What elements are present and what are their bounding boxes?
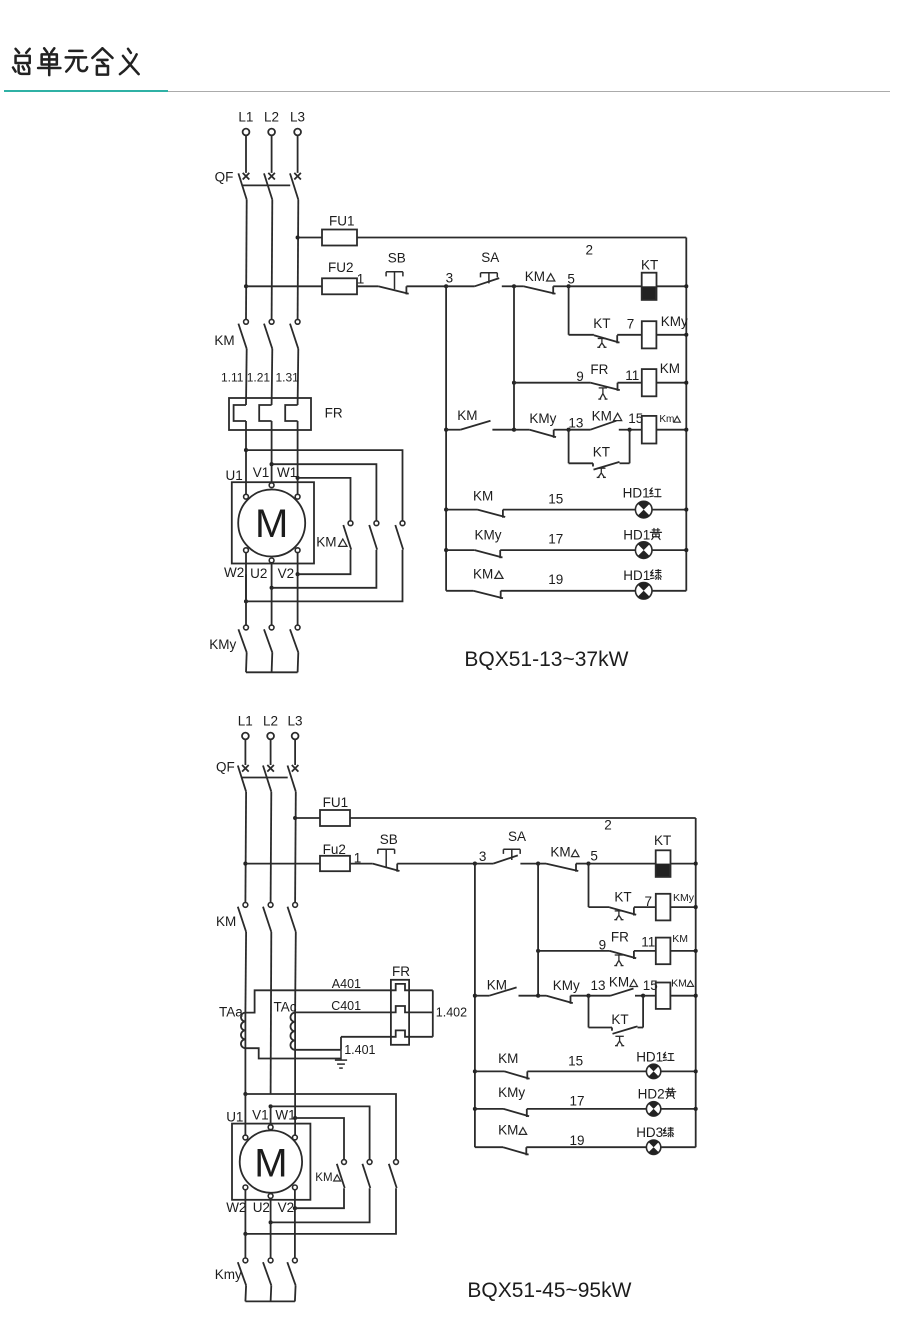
top node FU2 tap on pole1 xyxy=(244,284,248,288)
bottom wire delta branch2 xyxy=(271,1106,370,1159)
bottom contactor Kmy pole1 xyxy=(243,1258,248,1263)
svg-text:1.21: 1.21 xyxy=(247,371,271,385)
svg-text:V1: V1 xyxy=(253,465,270,480)
bottom node railB r4 xyxy=(536,994,540,998)
top contactor KMy pole2 xyxy=(269,625,274,630)
top node railA r6 xyxy=(444,548,448,552)
top KT bypass delay mark xyxy=(597,468,606,477)
bottom contactor KM pole2 xyxy=(268,903,273,908)
top wire railA to KMy contact r6 xyxy=(446,549,475,551)
svg-text:13: 13 xyxy=(568,415,583,430)
top node delta tap pole2 xyxy=(270,462,274,466)
top contactor KM-delta pole1 xyxy=(348,521,353,526)
bottom wire pole1 KM down xyxy=(244,932,247,1013)
top wire pole2 KM-FR xyxy=(271,349,274,405)
bottom wire pole1 QF-KM xyxy=(244,792,247,903)
bottom wire FR right tie 2 xyxy=(409,1011,433,1013)
top contactor KM-delta pole2 xyxy=(374,521,379,526)
bottom coil KM xyxy=(656,938,671,965)
bottom wire TAa return xyxy=(245,1048,341,1058)
svg-text:A401: A401 xyxy=(332,977,361,991)
top node 13 junction xyxy=(567,428,571,432)
top motor M circle xyxy=(238,490,305,557)
top wire W2 down to KMy xyxy=(245,574,247,625)
svg-text:KM: KM xyxy=(473,566,493,581)
svg-text:M: M xyxy=(254,1141,287,1185)
svg-text:KT: KT xyxy=(641,257,658,272)
top contact KT NO delayed (bypass) xyxy=(594,462,620,470)
title underline teal segment xyxy=(4,90,168,92)
svg-text:KM: KM xyxy=(671,977,687,989)
bottom wire U2 down to Kmy xyxy=(270,1222,272,1258)
bottom indicator lamp HD1 red xyxy=(646,1064,660,1078)
top FR heater element pole1 xyxy=(234,405,246,421)
bottom wire lamp to rail r7 xyxy=(661,1146,696,1148)
bottom indicator lamp HD2 yellow xyxy=(646,1102,660,1116)
bottom node delta tap pole3 xyxy=(293,1116,297,1120)
top wire pole1 KM-FR xyxy=(245,349,248,405)
bottom wire FU1 to right rail xyxy=(350,817,696,819)
bottom wire W2 to delta pole3 xyxy=(244,1190,246,1234)
top wire FU2 to SB xyxy=(357,285,378,287)
svg-text:11: 11 xyxy=(641,935,655,950)
svg-text:KM: KM xyxy=(214,333,234,348)
top node railB top xyxy=(512,284,516,288)
bottom node delta tap pole2 xyxy=(269,1104,273,1108)
bottom wire railC xyxy=(588,864,590,908)
bottom wire bypass down from node13 xyxy=(588,996,590,1028)
bottom contact KMy NC interlock xyxy=(547,996,573,1004)
top motor terminal V2 xyxy=(295,548,300,553)
bottom wire pole1 down to U1 xyxy=(244,1094,246,1135)
bottom fuse Fu2 xyxy=(320,856,350,871)
bottom wire delta branch3 xyxy=(295,1118,344,1160)
bottom node rail r5 xyxy=(694,1069,698,1073)
bottom wire node13 to KMdelta contact xyxy=(589,995,611,997)
bottom node rail r2 xyxy=(694,905,698,909)
bottom wire node15 to coil xyxy=(643,995,656,997)
top contact KMy NC interlock xyxy=(530,430,556,438)
bottom wire node5 to KT coil xyxy=(589,863,656,865)
bottom contactor KM-delta pole1 xyxy=(342,1160,347,1165)
top wire railC corner to KT contact xyxy=(569,334,594,336)
svg-text:KM: KM xyxy=(498,1051,518,1066)
top contactor KM-delta pole3 xyxy=(400,521,405,526)
bottom wire Fu2 to SB xyxy=(350,863,373,865)
svg-text:U1: U1 xyxy=(226,1110,243,1125)
svg-text:Kmy: Kmy xyxy=(215,1267,242,1282)
bottom KT bypass delay mark xyxy=(615,1036,624,1045)
svg-text:7: 7 xyxy=(645,894,653,909)
bottom motor terminal V1 xyxy=(268,1125,273,1130)
top breaker QF pole3 xyxy=(294,173,301,180)
bottom node railA r5 xyxy=(473,1069,477,1073)
svg-text:KT: KT xyxy=(593,444,610,459)
bottom contact KM NO aux xyxy=(489,987,516,995)
bottom wire SB to node3 xyxy=(397,863,475,865)
top node rail r1 xyxy=(684,284,688,288)
bottom wire pole3 down to W1 xyxy=(294,1118,296,1135)
bottom wire A401 line xyxy=(245,990,391,1012)
svg-text:KM: KM xyxy=(672,933,688,945)
svg-text:13: 13 xyxy=(591,978,606,993)
top wire pole3 to FU1 xyxy=(298,237,322,239)
svg-text:19: 19 xyxy=(548,572,563,587)
top motor terminal W2 xyxy=(244,548,249,553)
bottom contact KM (red lamp) xyxy=(505,1071,530,1079)
top wire to node5 xyxy=(553,285,568,287)
top coil KM xyxy=(642,369,657,396)
svg-text:HD2: HD2 xyxy=(638,1086,665,1101)
top wire railA to KM contact xyxy=(446,429,460,431)
svg-text:BQX51-13~37kW: BQX51-13~37kW xyxy=(464,648,628,671)
bottom wire KM coil to rail xyxy=(670,950,695,952)
top node rail r3 xyxy=(684,381,688,385)
bottom pushbutton SB (NC stop) xyxy=(373,864,400,872)
svg-text:KM: KM xyxy=(487,977,507,992)
bottom node 5 junction xyxy=(586,862,590,866)
bottom node railA r4 xyxy=(473,994,477,998)
top node delta tap pole1 xyxy=(244,448,248,452)
bottom thermal relay FR box xyxy=(391,980,409,1045)
bottom wire bypass bottom left xyxy=(589,1027,613,1029)
top contactor KM pole3 xyxy=(295,319,300,324)
title underline gray segment xyxy=(168,91,890,93)
top wire bypass down from node13 xyxy=(568,430,570,464)
svg-text:SA: SA xyxy=(481,250,499,265)
top wire L2 to QF xyxy=(271,135,273,173)
top contactor KM pole2 xyxy=(269,319,274,324)
bottom FR heater element 1 xyxy=(391,984,409,990)
svg-text:HD1: HD1 xyxy=(623,485,650,500)
svg-text:15: 15 xyxy=(548,491,563,506)
top contact KM (red lamp) xyxy=(478,510,506,518)
bottom KT delay mark xyxy=(614,911,623,920)
bottom motor M box xyxy=(232,1124,310,1200)
bottom wire pole1 to Fu2 xyxy=(245,863,320,865)
top thermal relay FR box xyxy=(229,398,311,430)
bottom pushbutton SA (NO start) xyxy=(493,855,518,863)
top wire KMy pole2 to star bar xyxy=(271,652,274,672)
bottom breaker QF pole3 xyxy=(292,765,299,772)
bottom node rail r3 xyxy=(694,949,698,953)
bottom FR heater element 2 xyxy=(391,1006,409,1012)
top contact KMy (yellow lamp) xyxy=(475,550,503,558)
top wire pole1 QF-KM xyxy=(245,200,248,320)
bottom wire railB r3 to FR xyxy=(538,950,610,952)
bottom wire railA to KM r5 xyxy=(475,1070,505,1072)
top node railB r4 xyxy=(512,428,516,432)
bottom node 13 junction xyxy=(586,994,590,998)
top indicator lamp HD1 red xyxy=(635,501,652,518)
top motor M box xyxy=(232,482,314,563)
top wire delta branch1 xyxy=(246,450,403,521)
bottom wire TAc vertical chord xyxy=(294,1013,296,1050)
top node 5 junction xyxy=(567,284,571,288)
top wire SB to node3 xyxy=(406,285,446,287)
svg-text:U2: U2 xyxy=(250,566,267,581)
bottom motor terminal V2 xyxy=(293,1185,298,1190)
bottom wire contact to lamp HD3 xyxy=(526,1146,646,1148)
svg-text:V2: V2 xyxy=(278,566,295,581)
bottom FR trip mark xyxy=(614,955,623,966)
svg-text:L3: L3 xyxy=(290,110,305,125)
top FR heater element pole3 xyxy=(285,405,297,421)
bottom node railB r3 xyxy=(536,949,540,953)
bottom wire C401 line xyxy=(295,1011,391,1013)
bottom wire TAa vertical chord xyxy=(244,1013,246,1049)
top wire right rail xyxy=(685,238,687,591)
top wire contact to lamp HD1g xyxy=(501,590,636,592)
svg-text:M: M xyxy=(255,502,288,546)
top wire FU1 to right rail xyxy=(357,237,686,239)
svg-text:5: 5 xyxy=(567,272,575,287)
top node delta tap pole3 xyxy=(296,476,300,480)
bottom node railB top xyxy=(536,862,540,866)
svg-text:KM: KM xyxy=(316,534,336,549)
bottom wire FR to KM coil xyxy=(634,950,655,952)
top node rail r6 xyxy=(684,548,688,552)
bottom node 3 junction xyxy=(473,862,477,866)
top node railA r5 xyxy=(444,508,448,512)
bottom wire coil to rail xyxy=(670,995,695,997)
top wire railB r3 to FR xyxy=(514,382,591,384)
top wire railC xyxy=(568,286,570,335)
svg-text:U2: U2 xyxy=(253,1200,270,1215)
bottom wire lamp to rail r5 xyxy=(661,1070,696,1072)
bottom node FU1 tap on pole3 xyxy=(293,816,297,820)
bottom wire KT coil to right rail xyxy=(671,863,696,865)
svg-text:9: 9 xyxy=(576,369,584,384)
bottom contact KMy (yellow lamp) xyxy=(504,1109,530,1117)
svg-text:L2: L2 xyxy=(264,110,279,125)
bottom contact KM-delta (green lamp) xyxy=(503,1147,529,1155)
svg-text:KM: KM xyxy=(525,269,545,284)
bottom node L3 terminal xyxy=(292,733,299,740)
top contact FR NC (overload) xyxy=(591,383,620,391)
svg-text:3: 3 xyxy=(479,849,487,864)
top wire node5 to KT coil xyxy=(569,285,642,287)
svg-text:FR: FR xyxy=(392,964,410,979)
top contact KM NO aux xyxy=(460,421,490,430)
top breaker QF pole1 xyxy=(243,173,250,180)
bottom wire 1.401 drop xyxy=(340,1037,342,1050)
top wire stub railB-KMy xyxy=(514,429,530,431)
svg-text:1: 1 xyxy=(357,272,365,287)
bottom indicator lamp HD3 green xyxy=(646,1140,660,1154)
top wire railA to KM contact r5 xyxy=(446,509,477,511)
top wire lamp to rail r7 xyxy=(652,590,686,592)
svg-text:FU1: FU1 xyxy=(329,214,355,229)
top contact KM-delta (green lamp) xyxy=(473,591,503,599)
bottom wire W2 down to Kmy xyxy=(244,1234,246,1258)
svg-text:KMy: KMy xyxy=(209,637,236,652)
bottom FR heater element 3 xyxy=(391,1030,409,1036)
svg-text:Km: Km xyxy=(659,414,674,425)
bottom wire to node5 xyxy=(576,863,589,865)
bottom star point bar xyxy=(245,1300,295,1302)
svg-text:KT: KT xyxy=(593,316,610,331)
top wire bypass up to node15 xyxy=(629,430,631,464)
bottom wire right rail xyxy=(695,818,697,1147)
svg-text:SB: SB xyxy=(380,832,398,847)
svg-text:2: 2 xyxy=(604,818,612,833)
svg-text:FU1: FU1 xyxy=(323,795,349,810)
svg-text:KMy: KMy xyxy=(498,1085,525,1100)
bottom wire pole3 to FU1 xyxy=(295,817,320,819)
top wire node3 to SA xyxy=(446,285,475,287)
top KT delay mark xyxy=(597,339,606,348)
top wire L3 to QF xyxy=(297,135,299,173)
top wire railA to KMdelta contact r7 xyxy=(446,590,473,592)
bottom fuse FU1 xyxy=(320,810,350,826)
bottom wire TAc return xyxy=(295,1049,341,1051)
top node FU1 tap on pole3 xyxy=(296,235,300,239)
svg-text:KT: KT xyxy=(614,890,631,905)
bottom contact KM-delta NC interlock xyxy=(546,864,578,872)
svg-text:KM: KM xyxy=(550,845,570,860)
bottom ground symbol xyxy=(335,1050,347,1068)
top FR trip mark xyxy=(598,388,607,399)
top wire KMy contact to node13 xyxy=(554,429,569,431)
bottom wire V2 down to Kmy xyxy=(294,1208,296,1258)
top wire U2 to delta pole2 xyxy=(271,563,273,588)
bottom wire KM contact to railB xyxy=(519,995,539,997)
bottom wire railC corner to KT contact xyxy=(589,906,610,908)
svg-text:KM: KM xyxy=(660,361,680,376)
bottom coil KMy xyxy=(656,894,671,921)
top wire bypass bottom right xyxy=(620,462,630,464)
bottom contact KT NC delayed xyxy=(610,907,637,915)
bottom wire pole2 down to V1 xyxy=(270,1106,272,1124)
top wire V2 down to KMy xyxy=(297,574,299,625)
bottom wire railA to KMy r6 xyxy=(475,1108,504,1110)
bottom wire L1 to QF xyxy=(244,739,246,765)
top wire contact to lamp HD1y xyxy=(500,549,635,551)
bottom wire railA to KMdelta r7 xyxy=(475,1146,503,1148)
bottom CT TAc winding xyxy=(290,1013,295,1050)
top wire delta branch2 xyxy=(272,464,377,521)
top contactor KMy pole1 xyxy=(244,625,249,630)
top wire L1 to QF xyxy=(245,135,247,173)
top node rail r5 xyxy=(684,508,688,512)
bottom wire bypass up to node15 xyxy=(642,996,644,1028)
svg-text:C401: C401 xyxy=(331,999,361,1013)
svg-text:11: 11 xyxy=(625,368,639,383)
bottom wire contact to lamp HD1 xyxy=(527,1070,646,1072)
top wire KMy pole3 to star bar xyxy=(297,652,300,672)
bottom motor terminal W1 xyxy=(293,1135,298,1140)
svg-text:1.401: 1.401 xyxy=(344,1043,375,1057)
top fuse FU1 xyxy=(322,230,357,246)
bottom breaker QF pole2 xyxy=(267,765,274,772)
top wire pole3 QF-KM xyxy=(297,200,300,320)
bottom node railA r6 xyxy=(473,1107,477,1111)
bottom motor terminal U2 xyxy=(268,1194,273,1199)
top motor terminal W1 xyxy=(295,494,300,499)
top FR heater element pole2 xyxy=(259,405,271,421)
top wire node15 to coil xyxy=(630,429,642,431)
top wire pole1 to FU2 xyxy=(246,285,322,287)
svg-text:KM: KM xyxy=(473,488,493,503)
top wire pole3 KM-FR xyxy=(297,349,300,405)
top motor terminal U2 xyxy=(269,558,274,563)
top wire railB xyxy=(513,286,515,429)
top wire delta branch3 xyxy=(298,478,351,521)
top breaker QF linkage bar xyxy=(242,184,290,186)
bottom wire heater3 to 1.401 xyxy=(341,1036,391,1038)
svg-text:KM: KM xyxy=(498,1122,518,1137)
bottom wire pole2 QF-KM xyxy=(270,792,273,903)
svg-text:KT: KT xyxy=(654,833,671,848)
bottom relay coil KT (half filled) xyxy=(656,850,671,877)
svg-text:Fu2: Fu2 xyxy=(323,842,346,857)
bottom contact KM-delta NO aux xyxy=(611,989,634,996)
top pushbutton SA (NO start) xyxy=(475,278,500,286)
svg-text:SA: SA xyxy=(508,829,526,844)
bottom contactor Kmy pole3 xyxy=(293,1258,298,1263)
bottom wire L3 to QF xyxy=(294,739,296,765)
svg-text:BQX51-45~95kW: BQX51-45~95kW xyxy=(467,1279,631,1302)
bottom contactor KM pole1 xyxy=(243,903,248,908)
page title 总单元含义 (stroke-drawn) xyxy=(13,48,139,75)
bottom wire KMdelta contact to node15 xyxy=(635,995,643,997)
svg-text:KT: KT xyxy=(611,1012,628,1027)
bottom wire U2 to delta pole2 xyxy=(270,1198,272,1222)
bottom wire pole3 QF-KM xyxy=(294,792,297,903)
svg-text:KMy: KMy xyxy=(529,411,556,426)
svg-text:HD3: HD3 xyxy=(636,1125,663,1140)
top wire FR to KM coil xyxy=(618,382,642,384)
bottom wire V2 to delta pole1 xyxy=(294,1190,296,1208)
bottom wire railA xyxy=(474,864,476,1148)
bottom node rail r4 xyxy=(694,994,698,998)
svg-text:FR: FR xyxy=(325,405,343,420)
top wire V2 to delta pole1 xyxy=(297,553,299,575)
svg-text:L1: L1 xyxy=(238,714,253,729)
top wire W2 to delta pole3 xyxy=(245,553,247,602)
svg-text:QF: QF xyxy=(215,169,234,184)
svg-text:1.31: 1.31 xyxy=(276,371,300,385)
top wire contact to lamp HD1 xyxy=(503,509,636,511)
top wire lamp to rail r5 xyxy=(652,509,686,511)
bottom wire Kmy pole3 to star bar xyxy=(294,1285,297,1301)
bottom wire stub railB-KMy xyxy=(538,995,546,997)
top wire stub xyxy=(514,285,523,287)
top motor terminal V1 xyxy=(269,483,274,488)
bottom wire TAc chord down xyxy=(294,1050,296,1118)
top pushbutton SB (NC stop) xyxy=(378,286,409,294)
bottom wire KT contact to KMy coil xyxy=(634,906,656,908)
bottom wire L2 to QF xyxy=(270,739,272,765)
top node L2 terminal xyxy=(268,129,275,136)
svg-text:KM: KM xyxy=(457,408,477,423)
bottom wire TAa chord down xyxy=(244,1048,246,1094)
svg-text:KM: KM xyxy=(216,914,236,929)
svg-text:V1: V1 xyxy=(252,1108,269,1123)
svg-text:W2: W2 xyxy=(224,565,244,580)
top motor terminal U1 xyxy=(244,494,249,499)
bottom motor terminal W2 xyxy=(243,1185,248,1190)
bottom contactor KM pole3 xyxy=(293,903,298,908)
bottom node delta tap pole1 xyxy=(243,1092,247,1096)
bottom coil KM-delta xyxy=(656,983,671,1009)
bottom breaker QF pole1 xyxy=(242,765,249,772)
top wire bypass bottom left xyxy=(569,462,593,464)
top node L1 terminal xyxy=(243,129,250,136)
svg-text:FU2: FU2 xyxy=(328,260,354,275)
top coil Km-delta xyxy=(642,416,657,444)
